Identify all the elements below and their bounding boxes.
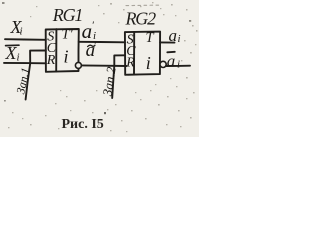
register RG2 block outline xyxy=(125,32,160,75)
svg-text:RG1: RG1 xyxy=(52,5,83,25)
wire Zap.1 diagonal lead xyxy=(26,63,31,99)
wire Zap.2 to C of RG2 (vertical branch and stub) xyxy=(114,55,125,66)
svg-text:i: i xyxy=(20,26,23,38)
svg-text:T′: T′ xyxy=(62,27,74,43)
wire output a-i of RG2 xyxy=(160,41,174,43)
wire Zap.1 to C of RG1 (vertical branch and stub) xyxy=(30,51,46,64)
dashed line above RG2 xyxy=(126,4,162,7)
register RG1 pin column divider xyxy=(55,29,57,71)
svg-text:i: i xyxy=(178,33,181,45)
svg-text:i: i xyxy=(17,52,20,64)
wire Q-bar' from RG1 bubble to R of RG2 xyxy=(81,64,126,67)
svg-text:T: T xyxy=(146,30,155,46)
wire Zap.2 diagonal lead xyxy=(112,66,114,98)
overbar of a-bar-i xyxy=(167,51,175,54)
inversion bubble on RG1 output xyxy=(75,62,81,68)
inversion bubble on RG2 output xyxy=(160,61,166,67)
wire Q'i from RG1 to S of RG2 xyxy=(79,41,125,44)
svg-text:R: R xyxy=(46,53,56,68)
svg-text:RG2: RG2 xyxy=(125,9,157,29)
svg-text:R: R xyxy=(125,56,135,71)
svg-text:i: i xyxy=(64,46,69,66)
register RG1 block outline xyxy=(46,29,79,72)
overbar of X-bar-i xyxy=(6,44,19,46)
svg-text:a: a xyxy=(167,51,176,70)
svg-text:Зап.2: Зап.2 xyxy=(99,65,118,97)
svg-text:Зап.1: Зап.1 xyxy=(13,66,32,95)
svg-text:a: a xyxy=(169,26,178,45)
svg-text:i: i xyxy=(146,53,151,73)
wire X-bar-i input to R of RG1 xyxy=(4,62,46,64)
tilde over a-bar' xyxy=(88,45,95,46)
svg-text:i: i xyxy=(177,58,180,70)
wire output a-bar-i of RG2 xyxy=(166,65,190,67)
svg-text:Рис. I5: Рис. I5 xyxy=(62,117,104,132)
register RG2 pin column divider xyxy=(133,32,135,75)
wire Xi input to S of RG1 xyxy=(5,38,46,41)
